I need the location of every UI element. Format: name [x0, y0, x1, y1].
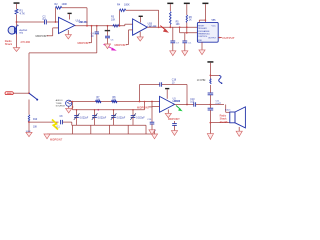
svg-text:GND: GND: [198, 40, 203, 42]
power V+ bar pot: [167, 3, 173, 11]
svg-text:OUTPUT: OUTPUT: [222, 36, 235, 40]
switch S1: [28, 92, 38, 100]
wire U1A output: [75, 25, 125, 27]
svg-text:10 OHM: 10 OHM: [197, 80, 206, 82]
svg-text:LM386: LM386: [173, 100, 181, 103]
svg-text:MIDPOINT: MIDPOINT: [50, 138, 63, 141]
svg-text:0.022uF: 0.022uF: [117, 117, 126, 119]
ground under U3: [165, 110, 171, 118]
pot wiper arrow red: [160, 26, 169, 33]
wire switch to R10: [28, 100, 30, 115]
capacitor C4 branch down: [91, 25, 99, 53]
trimmer capacitor C14: [111, 109, 126, 125]
svg-text:CONTROL: CONTROL: [198, 36, 209, 38]
yellow highlight flash: [52, 120, 58, 130]
svg-text:Shack: Shack: [5, 42, 13, 46]
svg-text:DISCHARGE: DISCHARGE: [198, 30, 211, 33]
capacitor C10 output: [190, 99, 224, 107]
wire filter mid rail: [72, 101, 146, 110]
feedback loop U3 with C18: [139, 80, 188, 106]
resistor R3 series: [111, 16, 119, 27]
wire R1 to mic node: [16, 15, 18, 48]
svg-text:LM1458: LM1458: [148, 25, 157, 28]
wire C2 to opamp1: [47, 21, 58, 23]
svg-text:MIDPOINT: MIDPOINT: [115, 44, 128, 47]
svg-text:R10: R10: [33, 119, 38, 121]
wire trigger tie: [179, 26, 198, 33]
net label MIDPOINT 3: [115, 30, 133, 47]
power V+ bar top-left: [14, 2, 20, 9]
net label MIDPOINT (black): [36, 28, 59, 38]
ground under mic: [13, 47, 19, 52]
svg-text:0.022uF: 0.022uF: [136, 117, 145, 119]
capacitor C11b: [207, 100, 221, 139]
resistor R10: [28, 115, 38, 129]
label Radio Shack 270-090: [5, 39, 31, 46]
capacitor C5 to ground: [105, 25, 115, 49]
power flag on U3: [165, 88, 169, 99]
net flag MODE left: [5, 92, 29, 95]
svg-text:MIDPOINT: MIDPOINT: [137, 106, 150, 109]
capacitor C2: [43, 15, 48, 24]
svg-text:0.047: 0.047: [216, 103, 222, 105]
trimmer capacitor C15: [130, 109, 145, 125]
svg-text:MIDPOINT: MIDPOINT: [168, 118, 180, 121]
op-amp U3 LM386: [160, 96, 181, 112]
svg-text:10K: 10K: [111, 19, 116, 22]
svg-text:8ohm: 8ohm: [225, 110, 231, 112]
svg-text:555: 555: [212, 19, 217, 22]
capacitor C17 to ground with MIDPOINT label: [168, 118, 180, 135]
wire filter lower rail: [72, 124, 146, 126]
ground under speaker: [236, 127, 242, 136]
node feedback tap: [55, 21, 57, 23]
capacitor C11a: [208, 93, 214, 105]
resistor R7: [96, 97, 102, 103]
ground under U1A: [65, 30, 71, 39]
wire mic node to C2: [17, 21, 44, 23]
wire filter top rail: [69, 101, 160, 103]
switch S2 right: [210, 75, 223, 84]
power flag on U1A: [68, 13, 72, 20]
op-amp U1B: [133, 19, 157, 35]
wire U1B output: [147, 26, 197, 28]
svg-text:C18: C18: [172, 80, 177, 82]
ground under 555: [199, 42, 205, 55]
node pink on filter rail: [97, 109, 99, 111]
capacitor C16 to ground: [147, 101, 155, 135]
highlight arrow magenta: [104, 44, 117, 50]
capacitor C8 inline: [57, 116, 72, 128]
power V+ bar output: [207, 61, 213, 78]
svg-text:10K: 10K: [176, 24, 181, 26]
op-amp U1A: [59, 17, 89, 33]
ground bottom-left of filter: [44, 134, 50, 139]
svg-text:OUTPUT: OUTPUT: [208, 38, 217, 40]
resistor R2 feedback: [55, 3, 88, 26]
svg-text:10K: 10K: [112, 100, 117, 102]
wire U3 output: [175, 104, 194, 106]
svg-text:1K: 1K: [189, 20, 192, 22]
wire 555 output: [218, 36, 235, 40]
node branch: [28, 121, 58, 132]
trimmer capacitor C13: [92, 109, 107, 125]
trimmer capacitor C12: [74, 109, 89, 125]
svg-text:VCC: VCC: [212, 26, 217, 28]
gain wiper arrow green: [176, 106, 183, 112]
ground right of filter: [146, 129, 158, 139]
resistor R8: [112, 97, 118, 103]
svg-text:4.7K: 4.7K: [20, 11, 26, 15]
svg-text:0.022uF: 0.022uF: [80, 117, 89, 119]
wire filter bottom rail: [47, 125, 146, 134]
potentiometer R5: [169, 12, 180, 29]
svg-text:100K: 100K: [62, 3, 68, 6]
speaker SPK1: [220, 107, 246, 128]
resistor R4 feedback: [117, 3, 159, 27]
svg-text:0.022uF: 0.022uF: [98, 117, 107, 119]
capacitor C7 to ground: [176, 33, 192, 56]
power flag on U1B: [139, 16, 143, 23]
svg-text:10K: 10K: [96, 100, 101, 102]
svg-text:40-248: 40-248: [220, 121, 228, 124]
ground under U1B: [137, 32, 143, 41]
net label MIDPOINT 2: [78, 25, 93, 45]
net label MIDPOINT 5: [137, 106, 160, 109]
svg-text:100K: 100K: [124, 3, 130, 6]
IC U2 555 timer: [197, 19, 218, 42]
svg-text:MIDPOINT: MIDPOINT: [78, 42, 91, 45]
resistor R9: [197, 79, 211, 93]
power V+ bar 555: [202, 3, 208, 23]
microphone MIC1: [8, 24, 27, 34]
audio source V1: [56, 99, 74, 113]
svg-text:AUDIO: AUDIO: [56, 99, 63, 102]
resistor R6: [186, 15, 193, 33]
resistor R1: [15, 8, 25, 15]
node mic junction: [16, 21, 18, 23]
power V+ bar R6: [184, 3, 190, 15]
capacitor C6 to ground (pot column): [170, 27, 176, 55]
wire to speaker: [210, 105, 231, 124]
svg-text:10K: 10K: [33, 127, 38, 129]
svg-text:SOURCE: SOURCE: [56, 105, 66, 107]
svg-text:270-090: 270-090: [21, 40, 31, 44]
svg-text:MIDPOINT: MIDPOINT: [36, 35, 49, 38]
wire down-left to switch: [29, 53, 97, 93]
